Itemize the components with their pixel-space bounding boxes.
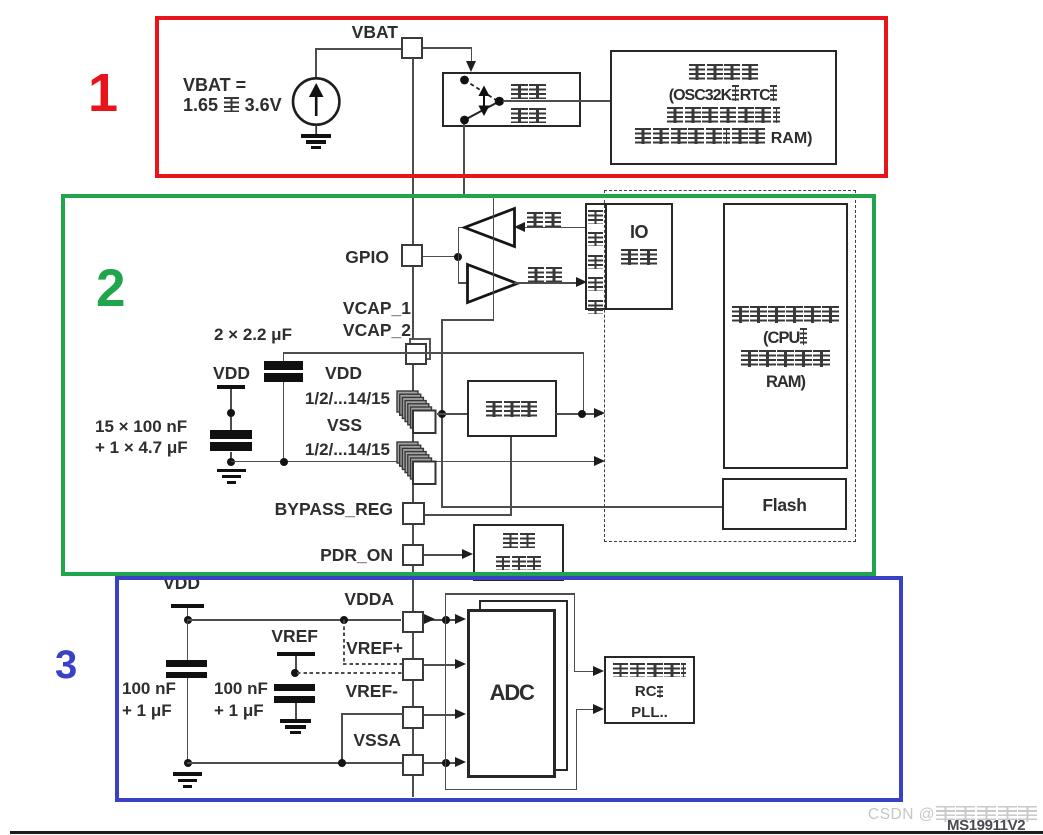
wire VREF- branch from VSSA — [341, 713, 403, 715]
pin VCAP_1/VCAP_2 double square — [409, 338, 431, 360]
arrow into analog circuits bottom — [593, 704, 604, 714]
blue region box 3 — [115, 576, 903, 802]
node VSSA junction left — [184, 759, 192, 767]
dashed wire VREF to VREF+ — [297, 672, 402, 674]
wire VBAT horizontal to pin — [315, 48, 402, 50]
wire VDD pins to regulator — [437, 413, 467, 415]
Flash box — [722, 478, 847, 531]
pin VSSA — [402, 754, 424, 776]
wire VSSA right + down stub — [424, 762, 462, 764]
arrow regulator output into core domain — [594, 408, 605, 418]
red region box 1 — [155, 16, 888, 178]
labels VDD 1/2/...14/15 — [325, 363, 362, 383]
VDD rail symbol left — [213, 363, 250, 383]
pin VDDA — [402, 611, 424, 633]
capacitor 100nF+1uF (VREF) — [274, 684, 315, 691]
labels VSS 1/2/...14/15 — [327, 415, 362, 435]
pin PDR_ON — [402, 544, 424, 566]
label 15 x 100 nF + 1 x 4.7 uF — [95, 417, 188, 458]
labels VCAP_1 VCAP_2 — [343, 297, 411, 341]
arrow into analog circuits top — [593, 666, 604, 676]
wire regulator output — [556, 413, 602, 415]
label 输出 — [526, 209, 562, 229]
node junction GPIO buffers — [454, 253, 462, 261]
wire pin stub below VSSA — [412, 776, 414, 797]
label 100 nF + 1 uF (left) — [122, 678, 176, 721]
node VBAT label — [352, 22, 398, 42]
arrow after VDDA pin — [424, 614, 435, 624]
capacitor 2x2.2uF — [283, 352, 285, 362]
IO logic box — [605, 203, 673, 310]
wire PDR_ON to reset controller — [424, 554, 464, 556]
pin GPIO — [401, 244, 423, 267]
wire analog boundary path top (VDDA loop) — [445, 593, 446, 790]
label VDDA — [344, 589, 394, 609]
wire buffer spine vertical — [458, 227, 460, 283]
label 3 — [55, 642, 77, 688]
label VREF+ — [346, 638, 403, 658]
node ADC boundary junction (VDDA) — [442, 616, 450, 624]
label 100 nF + 1 uF (VREF) — [214, 678, 268, 721]
level shifter box 电平转换器 — [585, 203, 608, 310]
wire regulator bottom to BYPASS_REG — [510, 437, 512, 515]
node VDD junction — [227, 409, 235, 417]
label 输入 — [527, 264, 563, 284]
ground (VREF) — [280, 719, 311, 723]
wire VSS horizontal — [231, 461, 601, 463]
label 2 — [96, 259, 125, 320]
wire VSSA horizontal — [187, 762, 402, 764]
switch symbol inside power switch — [446, 74, 516, 126]
analog circuits box 模拟电路 RC PLL — [604, 656, 695, 724]
arrow down into power switch — [466, 61, 476, 72]
node VSS junction — [227, 458, 235, 466]
regulator box 调压器 — [467, 380, 557, 437]
ground (VDD analog) — [173, 772, 202, 776]
VREF rail symbol — [271, 626, 318, 646]
pin stack VSS 1..15 — [395, 440, 439, 487]
reset controller box 复位控制器 — [473, 524, 564, 581]
wire VCAP horizontal — [283, 352, 584, 354]
wire to Flash — [441, 506, 722, 508]
wire vertical down to VDD junction and Flash feed — [441, 319, 443, 508]
green region box 2 — [61, 194, 876, 576]
arrow right into level shifter — [576, 277, 587, 287]
arrow VREF+ into ADC — [455, 659, 466, 669]
wire pin column (VBAT down to VSSA bottom) — [412, 58, 414, 797]
ground below current source — [301, 134, 331, 138]
wire power-switch continuation down through buffers — [493, 197, 495, 321]
wire 输出 from level shifter to output buffer — [522, 227, 586, 229]
arrow into reset controller — [462, 549, 473, 559]
wire VREF- arrow — [424, 714, 458, 716]
dashed wire VDDA to VREF+ — [343, 620, 345, 664]
node VDDA dashed takeoff — [340, 616, 348, 624]
current source V1 VBAT — [290, 75, 343, 155]
backup circuitry box (OSC32K RTC ...) — [610, 50, 837, 165]
node VREF junction — [291, 669, 299, 677]
wire GPIO to buffers — [423, 256, 459, 258]
label VSSA — [353, 730, 401, 750]
node VDD analog junction — [184, 616, 192, 624]
ADC back box — [479, 600, 568, 771]
wire analog boundary path bottom (VSSA loop) — [445, 789, 576, 790]
wire vbat source stem top — [315, 48, 317, 78]
wire jog left toward VCAP column — [441, 319, 494, 321]
wire VREF+ arrow — [424, 664, 458, 666]
pin BYPASS_REG — [402, 502, 425, 525]
pin stack VDD 1..15 — [395, 389, 439, 436]
label 2 x 2.2 uF — [214, 325, 292, 345]
arrow VSS into core domain — [594, 456, 605, 466]
capacitor 100nF+1uF (VDD) — [187, 620, 189, 660]
page bottom rule — [10, 831, 1043, 834]
op-amp output buffer (points left) — [462, 205, 518, 250]
node VDD pins junction — [438, 410, 446, 418]
VDD rail symbol (analog) — [163, 573, 200, 593]
label 电源/开关 — [510, 81, 547, 101]
node VSSA boundary junction — [442, 759, 450, 767]
core logic box 内核逻辑电路 — [723, 203, 848, 469]
arrow VDDA into ADC — [455, 614, 466, 624]
pin VREF+ — [402, 658, 424, 681]
ADC front box U2 — [467, 609, 556, 778]
label 1 — [88, 62, 118, 124]
label VREF- — [346, 681, 399, 701]
wire switch bottom down to green border — [463, 124, 465, 196]
label VBAT = 1.65 to 3.6V — [183, 76, 282, 115]
wire VSS pins to arrow — [437, 461, 602, 463]
pin VREF- — [402, 706, 424, 729]
ground below bulk caps — [217, 469, 246, 473]
wire VBAT pin to switch — [423, 47, 472, 49]
watermark CSDN @xindonglixiaozi — [868, 806, 1038, 824]
wire regulator output riser — [583, 352, 585, 413]
op-amp input buffer (points right) — [464, 261, 520, 306]
label GPIO — [345, 247, 389, 267]
power switch box U1 — [442, 72, 581, 127]
dashed core domain boundary — [604, 190, 856, 542]
wire switch output to backup box — [503, 100, 610, 102]
pin VBAT — [401, 37, 423, 60]
label MS19911V2 — [947, 817, 1025, 834]
arrow VREF- into ADC — [455, 709, 466, 719]
arrow left into output buffer — [514, 222, 525, 232]
wire VDDA horizontal — [187, 619, 401, 621]
wire 输入 from input buffer to level shifter — [514, 282, 578, 284]
label PDR_ON — [320, 545, 393, 565]
arrow VSSA into ADC — [455, 757, 466, 767]
wire VDDA arrow segment — [424, 619, 462, 621]
capacitor bulk stack — [210, 430, 252, 439]
node cap2 bottom junction — [280, 458, 288, 466]
label BYPASS_REG — [275, 499, 393, 519]
node regulator output junction — [578, 410, 586, 418]
node VREF- to VSSA junction — [338, 759, 346, 767]
